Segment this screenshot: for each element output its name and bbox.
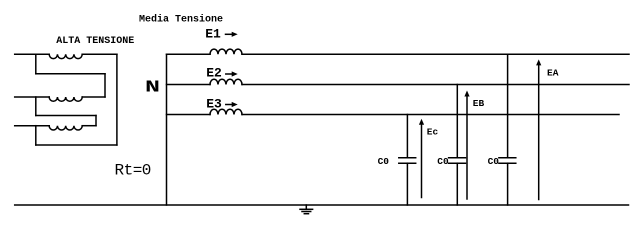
wire neutral bus vertical bbox=[166, 54, 168, 205]
wire delta link 1 horizontal bbox=[36, 73, 105, 75]
wire capacitor branch 2 upper bbox=[456, 85, 458, 158]
inductor E2 winding bbox=[210, 79, 242, 84]
wire delta link 2 horizontal bbox=[36, 115, 96, 117]
arrow voltage EB bbox=[464, 91, 469, 200]
arrow voltage Ec bbox=[419, 119, 424, 198]
svg-text:E3: E3 bbox=[206, 97, 222, 112]
svg-text:EA: EA bbox=[547, 67, 559, 78]
svg-text:Rt=0: Rt=0 bbox=[115, 162, 151, 180]
ground bbox=[300, 205, 313, 214]
wire delta link 2 drop bbox=[95, 116, 97, 126]
svg-text:C0: C0 bbox=[437, 156, 449, 167]
arrow E1 direction bbox=[226, 32, 238, 37]
wire phase A line bbox=[242, 53, 629, 55]
wire delta link 1 drop bbox=[104, 74, 106, 97]
capacitor C0 phase A bbox=[499, 158, 516, 164]
wire phase C line bbox=[242, 114, 619, 116]
svg-text:E1: E1 bbox=[205, 27, 221, 42]
svg-text:ALTA TENSIONE: ALTA TENSIONE bbox=[56, 36, 134, 47]
inductor E1 winding bbox=[210, 49, 242, 54]
wire capacitor branch 3 lower bbox=[507, 163, 509, 205]
wire capacitor branch 2 lower bbox=[456, 163, 458, 205]
svg-text:Ec: Ec bbox=[427, 127, 439, 138]
inductor HV winding 1 bbox=[49, 54, 82, 58]
svg-text:N: N bbox=[145, 79, 160, 98]
wire HV input phase 1 bbox=[15, 53, 50, 55]
svg-text:C0: C0 bbox=[488, 156, 500, 167]
svg-text:E2: E2 bbox=[206, 66, 222, 81]
wire capacitor branch 1 upper bbox=[406, 115, 408, 158]
wire HV winding 2 right lead bbox=[82, 96, 105, 98]
wire ground bus bbox=[15, 204, 629, 206]
arrow voltage EA bbox=[536, 59, 541, 199]
wire delta link 1 vertical bbox=[35, 54, 37, 74]
wire capacitor branch 1 lower bbox=[406, 163, 408, 205]
wire HV winding 3 right lead bbox=[82, 125, 96, 127]
wire delta bottom horizontal bbox=[36, 144, 117, 146]
svg-text:EB: EB bbox=[473, 98, 485, 109]
arrow E2 direction bbox=[226, 71, 238, 76]
wire HV input phase 3 bbox=[15, 125, 50, 127]
wire phase B line bbox=[242, 84, 629, 86]
inductor HV winding 3 bbox=[49, 126, 82, 130]
capacitor C0 phase B bbox=[449, 158, 466, 164]
inductor HV winding 2 bbox=[49, 97, 82, 101]
wire phase A left lead bbox=[167, 53, 211, 55]
inductor E3 winding bbox=[210, 109, 242, 114]
wire phase B left lead bbox=[167, 84, 211, 86]
svg-text:C0: C0 bbox=[378, 156, 390, 167]
wire delta link 3 vertical bbox=[35, 126, 37, 145]
wire HV input phase 2 bbox=[15, 96, 50, 98]
wire phase C left lead bbox=[167, 114, 211, 116]
wire HV winding 1 to right vertical bbox=[82, 53, 117, 55]
arrow E3 direction bbox=[226, 102, 238, 107]
wire capacitor branch 3 upper bbox=[507, 54, 509, 157]
capacitor C0 phase C bbox=[399, 158, 416, 164]
wire delta right vertical bbox=[116, 54, 118, 145]
wire delta link 2 vertical bbox=[35, 97, 37, 116]
svg-text:Media Tensione: Media Tensione bbox=[139, 14, 223, 26]
